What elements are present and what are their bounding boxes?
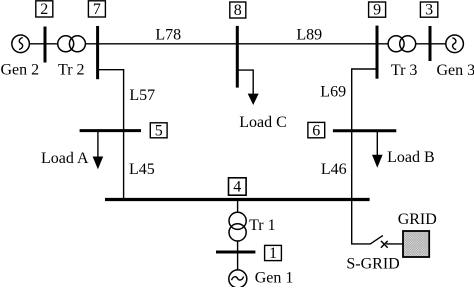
node box 9: [369, 2, 386, 19]
load Load B arrow: [372, 131, 383, 168]
wire L57 branch bus7 to bus5: [98, 70, 124, 200]
svg-text:Load C: Load C: [239, 114, 287, 131]
svg-text:4: 4: [233, 179, 241, 196]
bus 4 bar: [105, 198, 370, 201]
load Load A arrow: [93, 131, 104, 170]
svg-text:1: 1: [269, 245, 277, 262]
node box 4: [229, 178, 247, 196]
svg-text:6: 6: [312, 122, 320, 139]
svg-text:L69: L69: [320, 84, 346, 101]
label L57: [129, 87, 155, 104]
bus 9 bar: [376, 26, 379, 79]
node box 1: [265, 245, 282, 262]
label S-GRID: [346, 256, 399, 273]
svg-text:S-GRID: S-GRID: [346, 256, 399, 273]
wire top rail gen2 to Tr2: [29, 43, 58, 45]
node box 8: [230, 2, 246, 19]
switch cross mark: [381, 241, 388, 248]
svg-text:GRID: GRID: [398, 211, 437, 228]
node box 3: [420, 2, 437, 19]
svg-text:Tr 3: Tr 3: [391, 62, 418, 79]
svg-text:Gen 2: Gen 2: [1, 62, 40, 79]
svg-text:Tr 2: Tr 2: [58, 62, 85, 79]
generator Gen 3 symbol: [446, 35, 464, 53]
wire Tr3 to Gen3: [416, 43, 446, 45]
bus 3 bar: [429, 26, 432, 61]
bus 6 bar: [333, 129, 396, 132]
label Tr 1: [249, 217, 276, 234]
svg-text:Load A: Load A: [41, 150, 89, 167]
wire switch to GRID box: [386, 243, 403, 245]
transformer Tr 3: [388, 36, 416, 52]
svg-text:2: 2: [40, 1, 48, 18]
generator Gen 1 symbol: [229, 270, 247, 288]
wire Load C branch from bus 8: [237, 70, 253, 94]
wire bus4 to Tr1: [237, 200, 239, 213]
label Load C: [239, 114, 287, 131]
svg-text:7: 7: [93, 1, 101, 18]
transformer Tr 1: [229, 212, 246, 241]
svg-text:L89: L89: [296, 26, 322, 43]
svg-text:Gen 3: Gen 3: [437, 62, 474, 79]
switch S-GRID blade: [370, 236, 383, 244]
generator Gen 2 symbol: [12, 35, 30, 53]
svg-text:L78: L78: [155, 26, 181, 43]
label Load B: [387, 149, 435, 166]
transformer Tr 2: [58, 36, 86, 52]
svg-text:9: 9: [373, 2, 381, 19]
bus 1 bar: [216, 251, 255, 254]
wire Tr1 to bus1 to Gen1: [237, 241, 239, 271]
wire L78 L89 rail Tr2 to Tr3: [85, 43, 388, 45]
svg-text:5: 5: [155, 122, 163, 139]
label Gen 3: [437, 62, 474, 79]
label L78: [155, 26, 181, 43]
svg-text:Load B: Load B: [387, 149, 435, 166]
wire L69 branch bus9 to bus6 to S-GRID: [352, 69, 377, 244]
svg-text:L45: L45: [129, 161, 155, 178]
svg-text:L57: L57: [129, 87, 155, 104]
label GRID: [398, 211, 437, 228]
label L45: [129, 161, 155, 178]
svg-text:L46: L46: [321, 161, 347, 178]
label Tr 2: [58, 62, 85, 79]
bus 5 bar: [80, 129, 141, 132]
label L89: [296, 26, 322, 43]
label L69: [320, 84, 346, 101]
node box 5: [150, 122, 167, 139]
label Gen 2: [1, 62, 40, 79]
bus 8 bar: [236, 26, 239, 88]
label Tr 3: [391, 62, 418, 79]
svg-text:Tr 1: Tr 1: [249, 217, 276, 234]
svg-text:3: 3: [425, 2, 433, 19]
label Gen 1: [255, 270, 294, 287]
svg-text:8: 8: [234, 2, 242, 19]
label Load A: [41, 150, 89, 167]
svg-text:Gen 1: Gen 1: [255, 270, 294, 287]
GRID box: [403, 231, 429, 257]
node box 6: [308, 122, 325, 139]
node box 7: [88, 1, 105, 18]
node box 2: [36, 1, 53, 18]
load Load C arrow: [248, 94, 259, 105]
bus 7 bar: [96, 26, 99, 79]
label L46: [321, 161, 347, 178]
bus 2 bar: [44, 27, 47, 63]
